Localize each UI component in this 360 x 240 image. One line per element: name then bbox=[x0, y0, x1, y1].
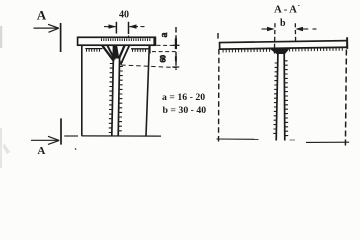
web left line bbox=[112, 45, 114, 136]
web white core below gussets bbox=[113, 60, 119, 136]
svg-text:A - A: A - A bbox=[274, 5, 297, 16]
dimension 40: right arrow bbox=[130, 26, 139, 28]
hidden column edge left bbox=[218, 49, 220, 145]
right flange bbox=[146, 45, 149, 136]
gusset right inner diagonal bbox=[119, 45, 125, 59]
web section white core bbox=[277, 54, 284, 141]
section marker A top: arrow bbox=[34, 27, 59, 29]
dimension b: left extension line bbox=[273, 23, 276, 53]
svg-text:a: a bbox=[159, 33, 170, 38]
dimension b: left arrow bbox=[262, 28, 273, 30]
vertical dimension line bbox=[175, 27, 177, 70]
stray speck bbox=[75, 148, 76, 149]
left flange weld seam bbox=[85, 48, 102, 50]
paper smudge left edge bbox=[0, 26, 2, 48]
hidden bottom line left bbox=[217, 138, 259, 140]
section cut line bottom of left figure bbox=[64, 135, 78, 137]
svg-text:60: 60 bbox=[159, 55, 168, 63]
dimension 40: extension ticks bbox=[115, 22, 117, 34]
svg-text:A: A bbox=[37, 145, 45, 157]
weld hatch on plate top bbox=[102, 38, 150, 41]
svg-text:b = 30 - 40: b = 30 - 40 bbox=[163, 105, 207, 116]
hidden column edge right bbox=[345, 50, 346, 148]
section marker A bottom: arrow bbox=[31, 139, 58, 141]
web section right line bbox=[283, 54, 286, 141]
gusset bottom dashed line bbox=[121, 65, 177, 68]
section marker A bottom: plane line bbox=[60, 118, 62, 144]
hidden bottom line right bbox=[306, 141, 349, 143]
gusset left outer diagonal bbox=[102, 45, 113, 60]
svg-text:40: 40 bbox=[119, 10, 129, 21]
plate bottom dashed connector bbox=[157, 44, 180, 46]
plate right edge thick bbox=[346, 37, 348, 49]
svg-text:b: b bbox=[280, 18, 286, 29]
dimension b: right arrow bbox=[298, 28, 309, 30]
web section hatch right bbox=[284, 61, 288, 136]
web hatch right bbox=[119, 62, 123, 131]
right flange weld seam bbox=[131, 48, 149, 50]
svg-text:a = 16 - 20: a = 16 - 20 bbox=[162, 92, 205, 103]
gusset right outer diagonal bbox=[121, 46, 130, 65]
hidden bottom dash right far bbox=[290, 139, 296, 141]
tick gusset bottom bbox=[172, 66, 179, 68]
dimension line thick segment at plate bbox=[175, 38, 177, 49]
left flange bbox=[81, 45, 83, 136]
web section left line bbox=[276, 54, 278, 141]
web solid dark top bbox=[113, 45, 120, 58]
dimension b: right extension line bbox=[294, 23, 296, 41]
paper smudge bottom-left corner bbox=[3, 143, 10, 154]
web right line bbox=[118, 56, 119, 136]
tick plate bottom bbox=[173, 44, 180, 46]
cap plate right edge thick bbox=[153, 37, 155, 46]
flange seam dashed connector bbox=[152, 51, 179, 53]
plate underside weld hatch right bbox=[290, 48, 343, 52]
dimension b: trailing dash bbox=[313, 28, 317, 30]
dimension line thick segment mid bbox=[175, 56, 177, 61]
dimension 40: left arrow bbox=[104, 26, 116, 28]
flange plate section (slight scan tilt) bbox=[220, 37, 348, 52]
svg-text:A: A bbox=[37, 8, 47, 23]
web top fillet weld block bbox=[271, 48, 289, 55]
web section hatch left bbox=[273, 63, 277, 133]
gusset left inner diagonal bbox=[107, 46, 115, 62]
plate outline bbox=[220, 41, 348, 49]
web hatch left bbox=[109, 64, 113, 133]
right flange top weld blob bbox=[149, 46, 151, 54]
section marker A top: plane line bbox=[60, 23, 62, 52]
plate underside weld hatch left bbox=[223, 49, 270, 53]
cap plate bbox=[78, 37, 156, 45]
hidden edge dash above plate left bbox=[217, 33, 219, 39]
